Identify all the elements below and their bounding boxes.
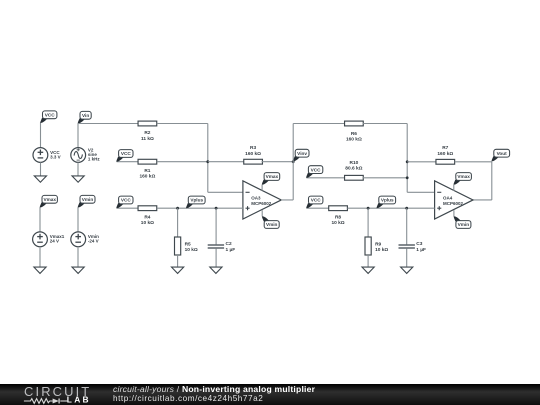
svg-text:160 kΩ: 160 kΩ [437, 151, 453, 157]
footer title text [113, 385, 315, 394]
net flag Vmin at OA3 [262, 216, 279, 228]
svg-text:10 kΩ: 10 kΩ [185, 247, 198, 253]
voltage source V2 sine 1 kHz [71, 148, 101, 163]
svg-text:160 kΩ: 160 kΩ [346, 137, 362, 143]
wire VCC to R8 [307, 207, 329, 209]
op-amp OA4 MCP6002 [435, 181, 473, 219]
svg-text:10 kΩ: 10 kΩ [141, 220, 154, 226]
net flag Vmin [78, 195, 95, 207]
wire down to OA4 inverting input [406, 124, 408, 193]
wire R8 to OA4 + input [347, 207, 434, 209]
svg-text:VCC: VCC [121, 151, 132, 156]
wire VCC to R4 [117, 207, 139, 209]
svg-text:Vmin: Vmin [266, 222, 278, 227]
resistor R7 160 kOhm [436, 145, 455, 164]
svg-text:Vplus: Vplus [381, 198, 394, 203]
net flag Vmax at OA3 [262, 173, 280, 185]
svg-text:R6: R6 [351, 131, 357, 137]
wire Vmin - to ground [77, 247, 79, 268]
net flag VCC [116, 196, 133, 208]
svg-text:MCP6002: MCP6002 [251, 201, 272, 206]
wire R3 to output node [262, 161, 294, 163]
svg-text:R10: R10 [349, 160, 358, 166]
svg-text:VCC: VCC [311, 167, 322, 172]
ground [34, 267, 46, 273]
wire Vin to R2 [78, 123, 138, 125]
svg-text:LAB: LAB [67, 395, 91, 405]
ground [362, 267, 374, 273]
voltage source Vmax1 24 V [33, 232, 65, 247]
CircuitLab logo [15, 384, 115, 405]
wire to OA4 - input [407, 191, 434, 193]
wire OA4 output [473, 199, 492, 201]
net flag Vmax at OA4 [454, 173, 472, 185]
op-amp OA3 MCP6002 [243, 181, 281, 219]
ground [401, 267, 413, 273]
junction R1/R2/R3 node [206, 160, 209, 163]
ground [172, 267, 184, 273]
svg-text:R9: R9 [375, 241, 381, 247]
svg-text:160 kΩ: 160 kΩ [245, 151, 261, 157]
svg-text:Vmin: Vmin [458, 222, 470, 227]
svg-text:R7: R7 [442, 145, 448, 151]
wire down to R9 [367, 208, 369, 237]
net flag Vmin at OA4 [454, 216, 471, 228]
svg-text:11 kΩ: 11 kΩ [141, 136, 154, 142]
resistor R2 11 kOhm [138, 121, 157, 142]
net flag VCC [40, 111, 57, 123]
junction Vplus/R9 node [367, 207, 370, 210]
wire V2 - to ground [77, 162, 79, 176]
wire Vmax flag to Vmax1 + [39, 208, 41, 233]
wire to R6 [293, 123, 345, 125]
svg-text:1 kHz: 1 kHz [88, 157, 101, 162]
footer url text [113, 395, 263, 403]
net flag Vout [492, 149, 510, 161]
wire R5 to ground [177, 255, 179, 267]
wire OA3 V+ supply stub [261, 185, 263, 191]
svg-text:160 kΩ: 160 kΩ [139, 174, 155, 180]
net flag Vin [78, 111, 92, 123]
svg-text:1 µF: 1 µF [416, 247, 426, 253]
svg-text:1 µF: 1 µF [226, 247, 236, 253]
wire down to C2 [215, 208, 217, 244]
wire R4 to OA3 + input [157, 207, 243, 209]
svg-text:R5: R5 [185, 241, 191, 247]
wire output node up to R6 row [292, 124, 294, 200]
svg-text:C2: C2 [226, 241, 232, 247]
wire C3 to ground [406, 248, 408, 267]
svg-text:Vin: Vin [82, 113, 89, 118]
svg-text:Vmax: Vmax [457, 174, 470, 179]
ground [72, 176, 84, 182]
wire Vin node down to V2 + [77, 124, 79, 148]
svg-text:OA4: OA4 [443, 196, 453, 201]
svg-text:-24 V: -24 V [88, 239, 99, 244]
voltage source Vmin -24 V [71, 232, 99, 247]
net flag VCC [116, 150, 133, 162]
svg-text:R8: R8 [335, 214, 341, 220]
svg-text:VCC: VCC [311, 198, 322, 203]
svg-text:MCP6002: MCP6002 [443, 201, 464, 206]
svg-text:OA3: OA3 [251, 196, 261, 201]
capacitor C3 1 uF [399, 241, 427, 253]
wire OA4 V- supply stub [453, 210, 455, 216]
wire V1 - to ground [40, 162, 42, 176]
svg-text:VCC: VCC [45, 113, 56, 118]
ground [72, 267, 84, 273]
svg-text:3.3 V: 3.3 V [50, 154, 61, 159]
wire R9 to ground [367, 255, 369, 267]
svg-text:Vmin: Vmin [82, 197, 94, 202]
junction C3 node [405, 207, 408, 210]
resistor R9 10 kOhm [365, 237, 388, 255]
wire junction to R7 [407, 161, 436, 163]
svg-text:R1: R1 [144, 168, 150, 174]
svg-text:VCC: VCC [121, 198, 132, 203]
resistor R8 10 kOhm [329, 206, 348, 226]
svg-text:R3: R3 [250, 145, 256, 151]
net flag Vinv [293, 149, 309, 161]
resistor R10 80.6 kOhm [345, 160, 364, 180]
wire VCC flag to V1 + [40, 123, 42, 148]
net flag VCC [306, 196, 323, 208]
wire Vmin flag to Vmin + [77, 208, 79, 233]
net flag Vmax [40, 195, 58, 207]
wire junction to R3 [208, 161, 245, 163]
wire R1 to junction [157, 161, 208, 163]
junction R10/R6 node [406, 176, 409, 179]
wire R7 to output node [455, 161, 492, 163]
wire to OA3 - input [208, 191, 243, 193]
footer bar [0, 384, 540, 405]
wire R6 to corner [363, 123, 407, 125]
resistor R6 160 kOhm [345, 121, 364, 143]
junction C2 node [215, 207, 218, 210]
svg-text:80.6 kΩ: 80.6 kΩ [345, 166, 362, 172]
net flag Vplus [377, 196, 396, 208]
wire output node down [491, 162, 493, 200]
svg-text:Vout: Vout [497, 151, 508, 156]
wire R2 to corner [157, 123, 208, 125]
resistor R5 10 kOhm [175, 237, 198, 255]
capacitor C2 1 uF [208, 241, 236, 253]
svg-text:Vmax: Vmax [43, 197, 56, 202]
wire VCC to R10 [306, 177, 345, 179]
wire OA3 output [281, 199, 293, 201]
wire OA4 V+ supply stub [453, 185, 455, 191]
resistor R1 160 kOhm [138, 159, 157, 179]
junction Vplus/R5 node [176, 207, 179, 210]
wire OA3 V- supply stub [261, 210, 263, 216]
wire VCC to R1 [117, 161, 138, 163]
wire C2 to ground [215, 248, 217, 267]
junction R3/Vinv/output node [292, 160, 295, 163]
junction R7 node [406, 160, 409, 163]
net flag Vplus [186, 196, 205, 208]
ground [34, 176, 46, 182]
svg-text:C3: C3 [416, 241, 422, 247]
net flag VCC [306, 166, 323, 178]
resistor R4 10 kOhm [138, 206, 157, 226]
wire down to C3 [406, 208, 408, 244]
wire down to OA3 inverting input [207, 124, 209, 193]
svg-text:R2: R2 [144, 130, 150, 136]
wire R10 to junction [363, 177, 407, 179]
resistor R3 160 kOhm [244, 145, 263, 164]
svg-text:Vinv: Vinv [297, 151, 307, 156]
svg-text:Vmax: Vmax [266, 174, 279, 179]
svg-text:Vplus: Vplus [190, 198, 203, 203]
svg-text:10 kΩ: 10 kΩ [375, 247, 388, 253]
svg-text:10 kΩ: 10 kΩ [331, 220, 344, 226]
svg-text:R4: R4 [144, 214, 150, 220]
svg-text:24 V: 24 V [50, 239, 59, 244]
wire Vmax1 - to ground [39, 247, 41, 268]
voltage source VCC 3.3 V [33, 148, 61, 163]
ground [210, 267, 222, 273]
wire down to R5 [177, 208, 179, 237]
